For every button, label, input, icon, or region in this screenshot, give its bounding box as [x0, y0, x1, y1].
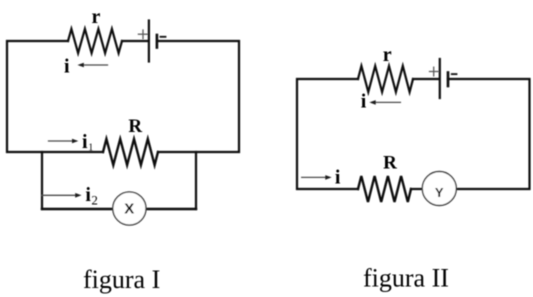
wire: figura II top-left segment and left vertical — [297, 79, 358, 189]
svg-text:i: i — [82, 131, 88, 153]
resistor r (figura II) — [358, 66, 413, 92]
svg-text:i: i — [361, 91, 367, 113]
current i2 arrow (figura I bottom, pointing right) — [42, 193, 82, 198]
battery B2 short plate (figura II) — [447, 73, 450, 87]
wire: figura II right vertical — [448, 79, 530, 189]
current i arrow (figura II top, pointing left) — [369, 100, 400, 105]
resistor r (figura I) — [68, 29, 122, 53]
svg-text:R: R — [383, 153, 397, 174]
wire: figura I top-left segment and left vertical — [7, 41, 103, 152]
wire: figura I top segment between resistor r and battery — [122, 40, 148, 42]
battery B1 long plate (figura I) — [148, 21, 150, 62]
wire: X branch bottom right segment (figura I) — [146, 208, 196, 210]
svg-text:2: 2 — [91, 193, 98, 208]
svg-text:figura II: figura II — [363, 264, 449, 293]
wire: X branch left vertical (figura I) — [41, 152, 43, 209]
svg-text:X: X — [124, 201, 134, 218]
svg-text:i: i — [335, 167, 341, 189]
battery B2 long plate (figura II) — [439, 59, 441, 98]
svg-text:Y: Y — [435, 185, 444, 200]
battery B1 short plate (figura I) — [156, 35, 159, 48]
current i arrow (figura I top, pointing left) — [78, 63, 108, 68]
wire: X branch bottom left segment (figura I) — [42, 208, 113, 210]
resistor R (figura I) — [103, 139, 158, 165]
battery B2 plus sign (figura II) — [430, 67, 439, 76]
current i1 arrow (figura I middle, pointing right) — [49, 139, 79, 144]
battery B1 minus sign (figura I) — [161, 36, 166, 38]
label i1 (figura I) — [82, 131, 93, 154]
battery B2 minus sign (figura II) — [452, 73, 457, 75]
wire: figura II top segment between resistor r and battery — [413, 78, 439, 80]
svg-text:r: r — [92, 6, 101, 28]
wire: X branch right vertical (figura I) — [195, 152, 197, 209]
meter X circle (figura I) — [113, 192, 146, 225]
svg-text:i: i — [64, 56, 70, 78]
svg-text:1: 1 — [88, 143, 93, 154]
svg-text:figura I: figura I — [83, 265, 160, 294]
current i arrow (figura II bottom, pointing right) — [302, 175, 332, 180]
svg-text:R: R — [128, 116, 142, 137]
meter Y circle (figura II) — [422, 172, 456, 206]
wire: figura II bottom segment between R and meter Y — [411, 188, 423, 190]
wire: figura I right vertical and bottom-right segment — [158, 41, 240, 152]
svg-text:r: r — [383, 44, 392, 66]
battery B1 plus sign (figura I) — [138, 30, 147, 39]
resistor R (figura II) — [358, 176, 411, 202]
label i2 (figura I) — [85, 184, 97, 208]
